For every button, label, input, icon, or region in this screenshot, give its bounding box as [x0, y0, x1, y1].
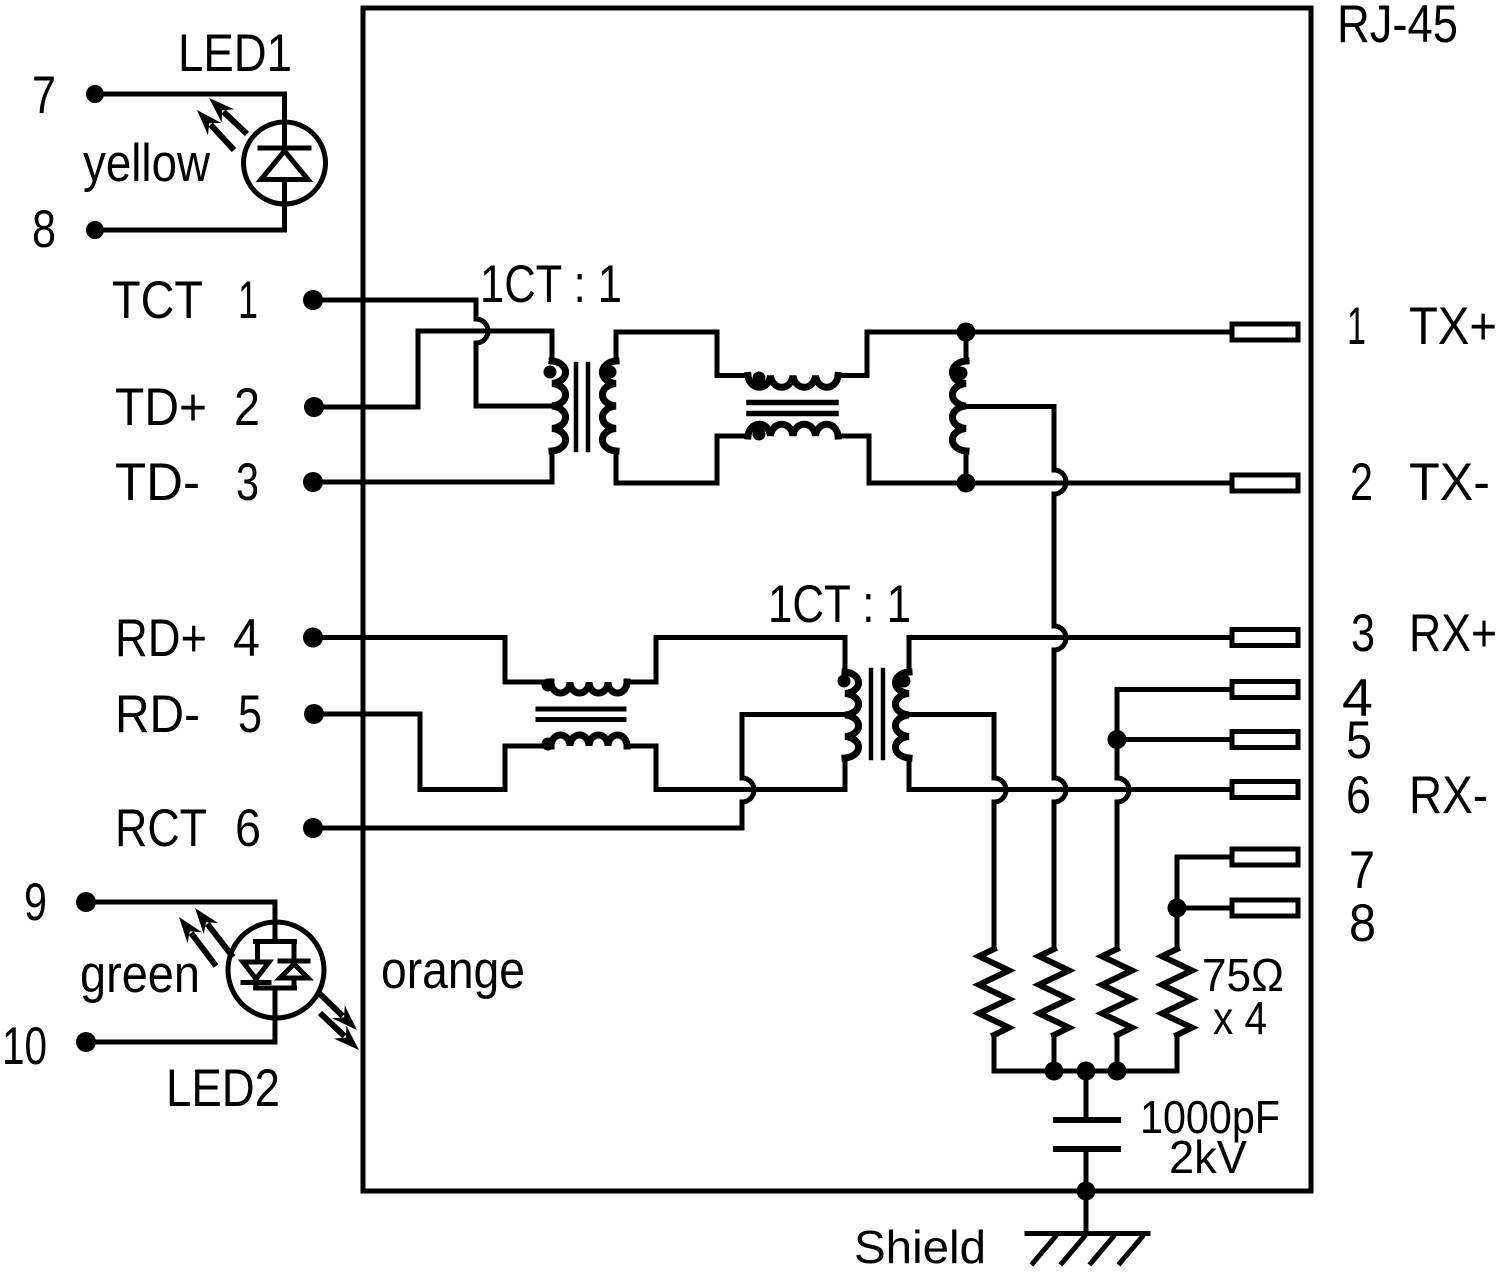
wire TD+ pin2 [314, 331, 552, 407]
svg-text:green: green [80, 945, 200, 1004]
LED2 light arrow lower-right 1 [319, 993, 357, 1030]
choke RX bottom polarity dot [542, 738, 555, 751]
resistor R3 75ohm [1102, 949, 1132, 1035]
wire T2 secondary bottom [907, 758, 912, 790]
common-mode choke RX bottom winding [505, 746, 551, 790]
diode LED2 left triangle [243, 962, 269, 979]
svg-text:1: 1 [1347, 297, 1366, 356]
diode LED2 left cathode bar [243, 980, 269, 985]
wire RCT pin6 with hop [313, 715, 754, 829]
wire pin 8 [1177, 906, 1232, 911]
diode LED1 cathode bar [260, 146, 309, 151]
svg-text:4: 4 [233, 609, 260, 668]
node shield junction dot [1077, 1182, 1096, 1201]
wire resistor bus [994, 1069, 1177, 1074]
choke RX top polarity dot [542, 679, 555, 692]
LED2 wire pin 9 [86, 902, 275, 922]
choke TX bottom polarity dot [753, 428, 766, 441]
pin 5 pad [1232, 732, 1298, 748]
diode LED2 right cathode bar [280, 959, 308, 964]
wire pin 7 [1177, 857, 1232, 908]
pin 7 terminal dot [86, 85, 104, 103]
svg-text:TD-: TD- [115, 453, 200, 512]
wire T2 primary top [843, 638, 848, 673]
resistor R2 75ohm [1039, 949, 1069, 1035]
pin 7 pad [1232, 849, 1298, 865]
svg-text:TX+: TX+ [1409, 297, 1497, 356]
LED1 circle [244, 122, 326, 204]
pin 9 terminal dot [76, 892, 96, 912]
pin 1 TCT terminal dot [303, 290, 323, 310]
wire output winding ends [964, 332, 969, 483]
svg-text:Shield: Shield [854, 1221, 986, 1272]
diode LED1 triangle [261, 151, 308, 180]
svg-text:3: 3 [1351, 604, 1375, 663]
resistor R4 75ohm [1162, 949, 1192, 1035]
LED1 light arrow lower [197, 110, 234, 150]
svg-text:RD+: RD+ [115, 609, 207, 668]
svg-text:x 4: x 4 [1213, 992, 1267, 1044]
transformer T1 core [576, 364, 588, 450]
wire shield ground stem [1084, 1191, 1089, 1233]
pin 10 terminal dot [76, 1032, 96, 1052]
wire T1 secondary top to choke [616, 332, 748, 376]
svg-text:TCT: TCT [112, 271, 203, 330]
wire TD- pin3 [313, 451, 552, 482]
svg-text:1CT : 1: 1CT : 1 [768, 575, 911, 634]
pin 3 TD- terminal dot [303, 472, 323, 492]
LED2 inner frame top [256, 922, 295, 962]
LED2 light arrow upper-left 1 [195, 908, 233, 957]
svg-text:2: 2 [234, 378, 260, 437]
svg-text:7: 7 [32, 66, 56, 125]
svg-text:RD-: RD- [115, 685, 200, 744]
wire RCT to T2 primary center tap [742, 712, 849, 717]
svg-text:RX-: RX- [1409, 766, 1488, 825]
transformer T1 primary winding [552, 361, 566, 451]
svg-text:8: 8 [1349, 894, 1376, 953]
LED1 wire pin 7 [95, 94, 285, 122]
wire pins 4/5 to R3 with hop [1117, 740, 1129, 950]
svg-text:RJ-45: RJ-45 [1337, 0, 1458, 54]
pin 4 RD+ terminal dot [303, 628, 323, 648]
bus junction dot R3 [1108, 1062, 1127, 1081]
output winding polarity dot [955, 367, 968, 380]
wire RX- to pin 6 [909, 787, 1232, 792]
wire T1 secondary bottom to choke [616, 436, 748, 483]
wire pins 7/8 to R4 [1175, 908, 1180, 949]
capacitor C1 plates [1056, 1120, 1118, 1149]
svg-text:yellow: yellow [83, 134, 211, 193]
LED1 wire pin 8 [95, 204, 285, 230]
svg-text:LED1: LED1 [178, 24, 292, 83]
ground symbol [1027, 1234, 1148, 1264]
svg-text:10: 10 [2, 1017, 47, 1076]
T2 secondary polarity dot [898, 675, 911, 688]
common-mode choke RX top winding [505, 638, 551, 683]
transformer T2 core [871, 670, 883, 758]
svg-text:3: 3 [236, 453, 259, 512]
common-mode choke TX core [749, 403, 836, 414]
transformer T1 secondary winding [602, 361, 616, 451]
pin 6 pad [1232, 782, 1298, 798]
svg-text:TX-: TX- [1409, 453, 1490, 512]
common-mode choke TX top winding [748, 376, 838, 388]
wire pin 4 [1117, 690, 1232, 740]
svg-text:LED2: LED2 [166, 1059, 280, 1118]
diode LED1 stem [282, 122, 287, 204]
pin 2 pad [1232, 475, 1298, 491]
LED2 wire pin 10 [86, 1018, 275, 1042]
output autotransformer winding [952, 361, 966, 451]
svg-text:2: 2 [1350, 453, 1373, 512]
svg-text:RCT: RCT [115, 799, 207, 858]
wire choke TX bottom to node TX- [838, 436, 966, 483]
node pins 4-5 junction dot [1108, 730, 1127, 749]
node TX- junction dot [957, 474, 976, 493]
LED2 inner frame bottom [256, 978, 295, 1018]
capacitor C1 top lead [1084, 1071, 1089, 1117]
common-mode choke TX bottom winding [748, 424, 838, 436]
wire RD- pin5 [314, 714, 505, 790]
node TX+ junction dot [957, 323, 976, 342]
svg-text:9: 9 [24, 873, 47, 932]
pin 3 pad [1232, 630, 1298, 646]
T1 primary polarity dot [544, 366, 557, 379]
T1 secondary polarity dot [604, 366, 617, 379]
diode LED2 right triangle [280, 964, 308, 978]
wire TCT pin1 with hop [313, 300, 556, 406]
pin 6 RCT terminal dot [303, 818, 323, 838]
svg-text:2kV: 2kV [1169, 1131, 1247, 1183]
transformer T2 secondary winding [895, 672, 909, 758]
wire output winding tap [966, 404, 1054, 409]
common-mode choke RX core [538, 709, 624, 720]
svg-text:5: 5 [1346, 711, 1372, 770]
wire RX- left segment [656, 787, 845, 792]
wire pin 5 [1117, 737, 1232, 742]
svg-text:RX+: RX+ [1409, 604, 1497, 663]
pin 8 terminal dot [86, 221, 104, 239]
wire T2 secondary tap to R1 with hop [909, 715, 1006, 950]
wire choke TX top to node TX+ [838, 332, 966, 376]
transformer T2 primary winding [845, 672, 859, 758]
pin 8 pad [1232, 900, 1298, 916]
wire T2 primary bottom [843, 758, 848, 790]
svg-text:6: 6 [235, 799, 261, 858]
bus junction dot R2 [1045, 1062, 1064, 1081]
module boundary box [363, 8, 1311, 1191]
LED2 light arrow lower-right 2 [320, 1013, 359, 1050]
svg-text:6: 6 [1346, 766, 1371, 825]
wire RD+ pin4 [313, 635, 505, 640]
svg-text:5: 5 [238, 685, 262, 744]
resistor R1 75ohm [979, 949, 1009, 1035]
T2 primary polarity dot [838, 675, 851, 688]
wire tap vertical to R2 with hops [1054, 407, 1066, 950]
svg-text:8: 8 [32, 200, 56, 259]
wire node TX+ to pin 1 [966, 330, 1232, 335]
LED1 light arrow upper [209, 98, 247, 134]
pin 1 pad [1232, 324, 1298, 340]
wire RX top rail choke to T2 [656, 635, 845, 640]
node pins 7-8 junction dot [1168, 899, 1187, 918]
wire T2 secondary top [907, 638, 912, 673]
capacitor C1 bottom lead [1084, 1152, 1089, 1191]
wire node TX- to pin 2 [966, 481, 1232, 486]
pin 4 pad [1232, 682, 1298, 698]
svg-text:7: 7 [1349, 841, 1375, 900]
bus junction dot cap [1077, 1062, 1096, 1081]
svg-text:TD+: TD+ [115, 378, 207, 437]
pin 2 TD+ terminal dot [304, 397, 324, 417]
pin 5 RD- terminal dot [304, 704, 324, 724]
svg-text:orange: orange [381, 941, 525, 1000]
choke TX top polarity dot [753, 372, 766, 385]
svg-text:1: 1 [238, 271, 258, 330]
LED2 light arrow upper-left 2 [179, 917, 216, 966]
svg-text:1CT : 1: 1CT : 1 [480, 255, 622, 314]
LED2 circle [228, 922, 324, 1018]
wire RX+ to pin 3 [909, 635, 1232, 640]
